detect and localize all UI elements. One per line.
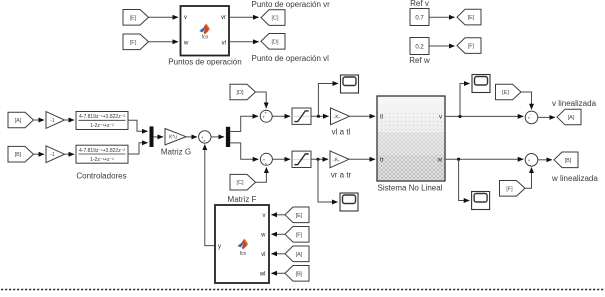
svg-text:Punto de operación vr: Punto de operación vr bbox=[252, 0, 331, 9]
svg-text:[B]: [B] bbox=[565, 158, 572, 164]
svg-text:fcn: fcn bbox=[202, 35, 209, 41]
svg-text:[D]: [D] bbox=[236, 90, 244, 96]
svg-text:w linealizada: w linealizada bbox=[551, 174, 598, 183]
svg-text:[D]: [D] bbox=[271, 39, 279, 45]
svg-text:K*u: K*u bbox=[169, 135, 177, 141]
svg-text:0.2: 0.2 bbox=[415, 44, 424, 50]
svg-text:-1: -1 bbox=[50, 152, 55, 158]
svg-text:-1: -1 bbox=[50, 118, 55, 124]
svg-text:tl: tl bbox=[380, 115, 383, 121]
svg-text:Ref v: Ref v bbox=[410, 0, 429, 8]
svg-text:+: + bbox=[265, 110, 268, 115]
svg-text:v: v bbox=[184, 15, 187, 21]
svg-text:0.7: 0.7 bbox=[415, 15, 424, 21]
svg-text:w: w bbox=[260, 233, 266, 239]
svg-text:Controladores: Controladores bbox=[76, 172, 126, 181]
svg-text:v: v bbox=[263, 213, 266, 219]
svg-text:[C]: [C] bbox=[271, 16, 279, 22]
svg-text:Punto de operación vl: Punto de operación vl bbox=[252, 54, 330, 63]
svg-text:[A]: [A] bbox=[568, 115, 575, 121]
svg-text:+: + bbox=[265, 161, 268, 166]
svg-text:[F]: [F] bbox=[296, 232, 303, 238]
svg-text:Sistema No Lineal: Sistema No Lineal bbox=[378, 184, 443, 193]
svg-text:v: v bbox=[439, 115, 442, 121]
svg-text:[E]: [E] bbox=[130, 15, 137, 21]
svg-text:[F]: [F] bbox=[506, 186, 513, 192]
svg-text:fcn: fcn bbox=[240, 251, 247, 257]
svg-text:vl a tl: vl a tl bbox=[332, 128, 351, 137]
svg-text:4-7.819z⁻¹+3.822z⁻²: 4-7.819z⁻¹+3.822z⁻² bbox=[79, 114, 125, 120]
svg-text:Puntos de operación: Puntos de operación bbox=[168, 58, 241, 67]
svg-text:w: w bbox=[437, 158, 443, 164]
svg-text:-K-: -K- bbox=[334, 114, 341, 120]
svg-text:vr: vr bbox=[221, 15, 226, 21]
svg-text:[A]: [A] bbox=[15, 118, 22, 124]
svg-text:[F]: [F] bbox=[468, 44, 475, 50]
svg-text:1-2z⁻¹+z⁻²: 1-2z⁻¹+z⁻² bbox=[90, 157, 114, 163]
svg-text:w: w bbox=[183, 41, 189, 47]
svg-text:[A]: [A] bbox=[296, 252, 303, 258]
svg-text:[E]: [E] bbox=[502, 90, 509, 96]
svg-text:v linealizada: v linealizada bbox=[552, 99, 597, 108]
svg-text:+: + bbox=[203, 139, 206, 144]
svg-text:Ref w: Ref w bbox=[409, 56, 430, 65]
svg-text:[C]: [C] bbox=[236, 180, 244, 186]
svg-text:y: y bbox=[218, 244, 221, 250]
svg-text:[B]: [B] bbox=[15, 152, 22, 158]
svg-text:vl: vl bbox=[222, 41, 226, 47]
svg-text:Matriz G: Matriz G bbox=[161, 148, 191, 157]
svg-text:tr: tr bbox=[380, 158, 384, 164]
svg-text:vr a tr: vr a tr bbox=[331, 171, 352, 180]
svg-text:[E]: [E] bbox=[296, 213, 303, 219]
svg-text:[F]: [F] bbox=[130, 40, 137, 46]
svg-text:[B]: [B] bbox=[296, 271, 303, 277]
svg-text:-K-: -K- bbox=[333, 157, 340, 163]
svg-text:vl: vl bbox=[261, 252, 265, 258]
svg-text:[E]: [E] bbox=[468, 15, 475, 21]
svg-text:Matriz F: Matriz F bbox=[228, 195, 257, 204]
svg-text:wl: wl bbox=[259, 272, 266, 278]
svg-text:4-7.819z⁻¹+3.822z⁻²: 4-7.819z⁻¹+3.822z⁻² bbox=[79, 148, 125, 154]
svg-text:1-2z⁻¹+z⁻²: 1-2z⁻¹+z⁻² bbox=[90, 123, 114, 129]
